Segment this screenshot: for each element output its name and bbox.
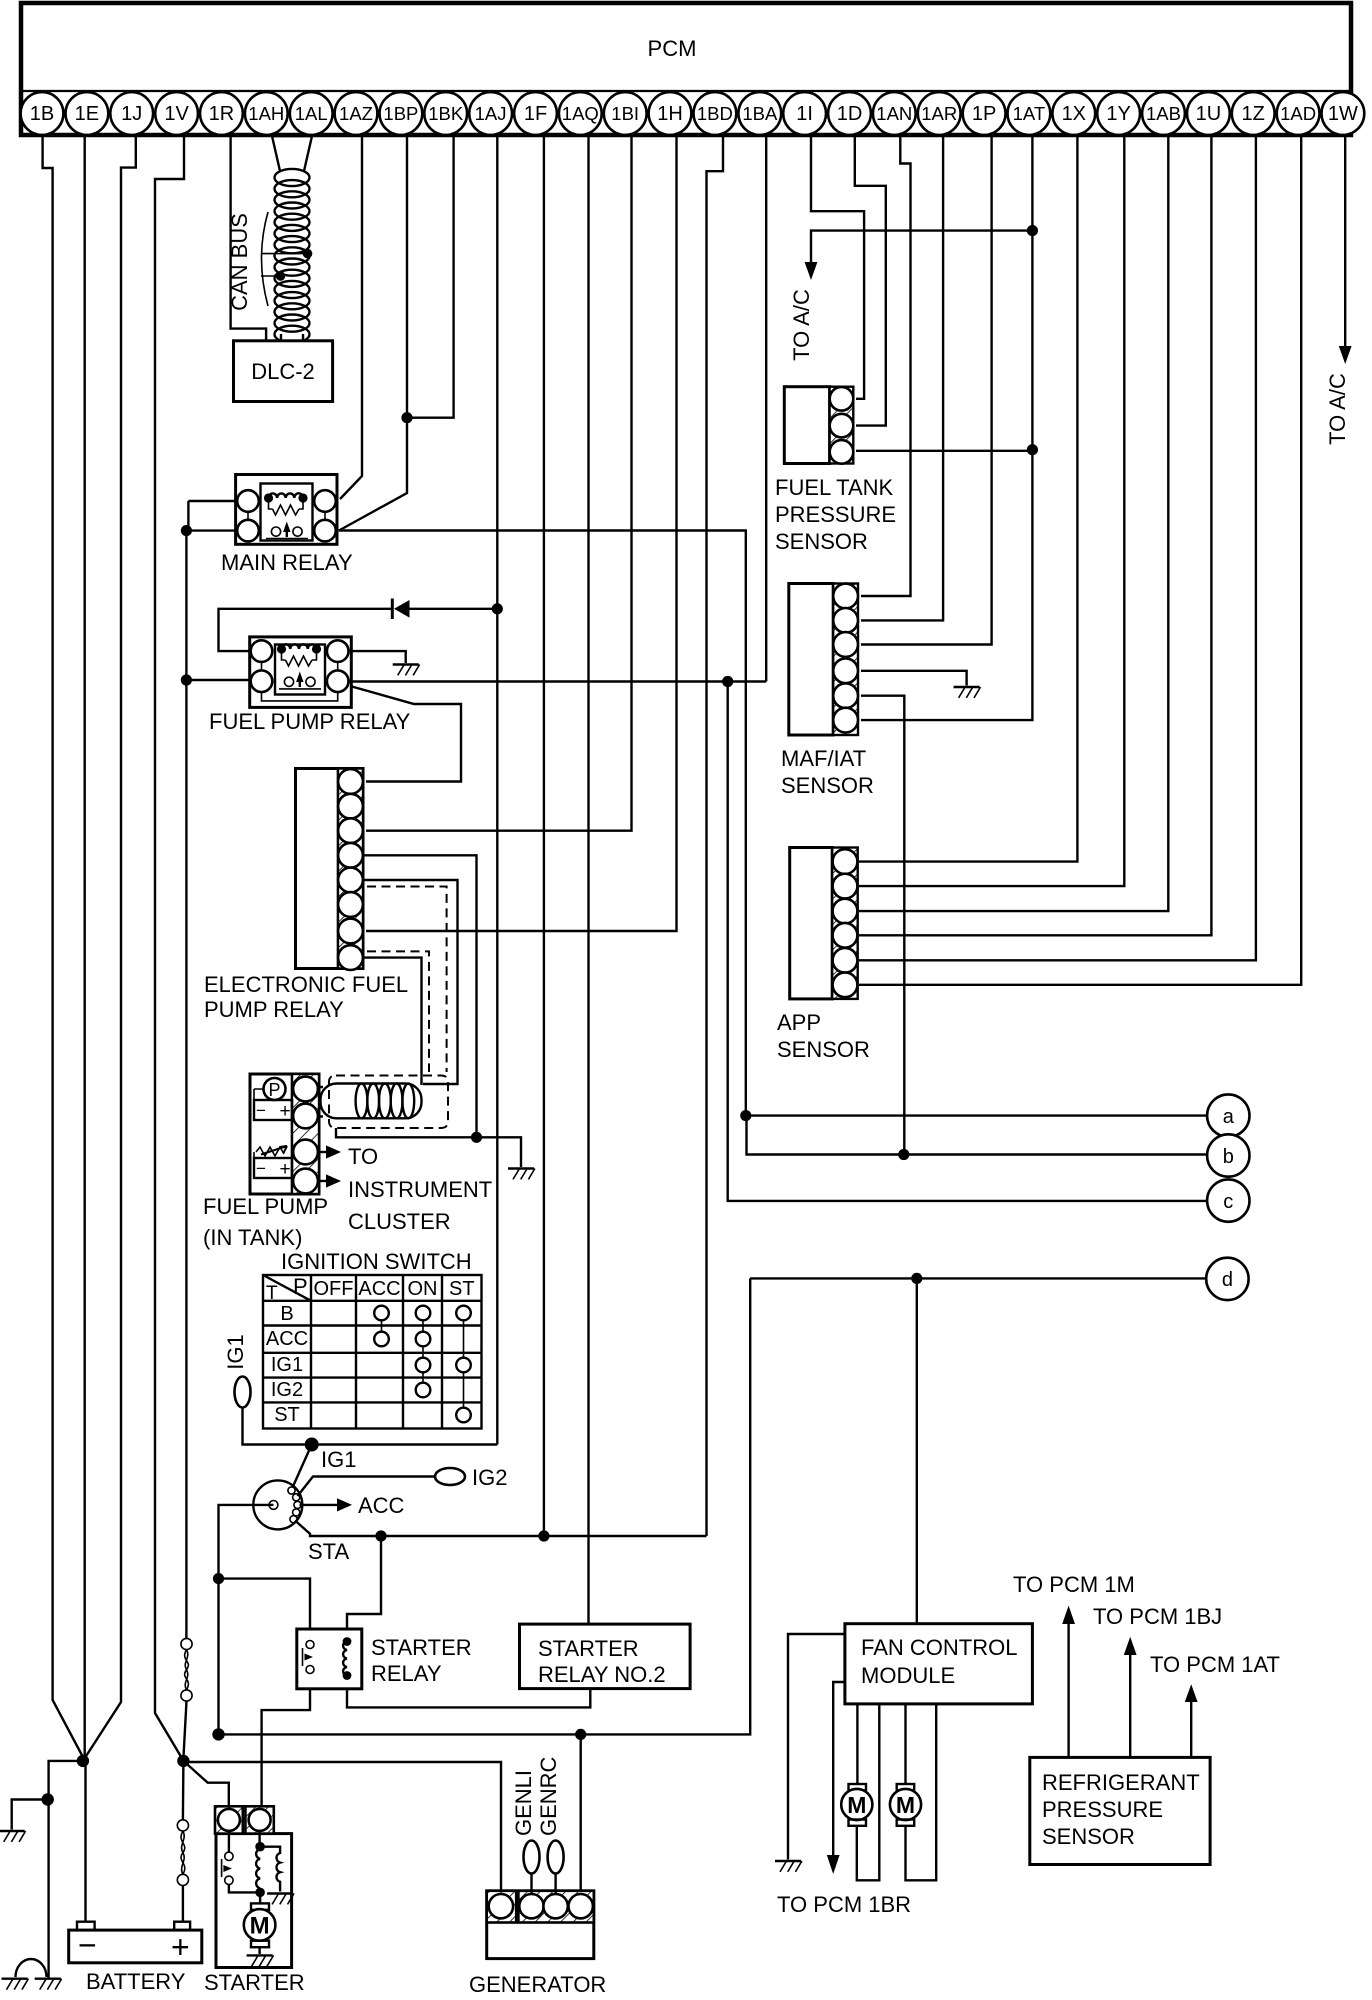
wire motor to ground xyxy=(258,1947,260,1954)
junction CAN wire tap upper xyxy=(303,249,313,259)
wire 1BK down xyxy=(407,136,454,418)
EFP relay pin 8 xyxy=(338,945,363,970)
wire RPS to PCM 1AT xyxy=(1190,1702,1192,1757)
wire starter relay coil to relay no2 xyxy=(347,1689,590,1708)
starter relay switch xyxy=(303,1641,315,1674)
APP sensor pin 4 xyxy=(833,923,858,948)
svg-text:FUEL TANK: FUEL TANK xyxy=(775,475,894,500)
fuel pump relay FUEL PUMP RELAY xyxy=(250,637,352,708)
wire 1AZ to main relay xyxy=(340,136,362,500)
wire FCM ground lead xyxy=(788,1634,845,1860)
svg-text:DLC-2: DLC-2 xyxy=(251,359,315,384)
svg-text:−: − xyxy=(256,1159,266,1178)
battery box xyxy=(69,1922,202,1965)
wire starter signal line xyxy=(219,1278,751,1734)
APP sensor pin 2 xyxy=(833,874,858,899)
PCM module box xyxy=(21,3,1351,135)
fan motor 2 xyxy=(890,1784,921,1826)
EFP relay pin 7 xyxy=(338,919,363,944)
ground left upper xyxy=(0,1831,26,1842)
junction solenoid bottom xyxy=(255,1888,265,1898)
svg-text:1BD: 1BD xyxy=(697,103,733,124)
starter terminal B xyxy=(215,1806,243,1833)
junction solenoid top xyxy=(255,1842,265,1852)
PCM pin 1BP xyxy=(380,92,423,135)
wire fan control module feed xyxy=(916,1278,918,1623)
svg-text:1BI: 1BI xyxy=(611,103,639,124)
fuel pump choke coil leads xyxy=(319,1087,323,1117)
PCM pin 1AH xyxy=(245,92,288,135)
MAF/IAT sensor pin 6 xyxy=(833,708,858,733)
fuel pump pin 1 xyxy=(293,1077,318,1102)
wire 1U to APP sensor xyxy=(859,136,1211,936)
APP sensor pin 6 xyxy=(833,972,858,997)
svg-text:ACC: ACC xyxy=(358,1493,405,1518)
wire battery feed to generator xyxy=(183,1761,501,1891)
svg-text:1BK: 1BK xyxy=(428,103,464,124)
junction bus-x186 / main relay lower pin xyxy=(181,525,192,536)
fuel pump P motor symbol xyxy=(254,1078,292,1122)
wire 1E to battery ground node xyxy=(83,136,85,1759)
ACC arrow xyxy=(337,1498,352,1511)
svg-text:1Z: 1Z xyxy=(1242,103,1265,125)
wire 1B to battery ground node xyxy=(43,136,83,1758)
starter motor xyxy=(244,1892,276,1954)
wire fuel pump relay output line xyxy=(186,679,249,681)
PCM pin 1J xyxy=(110,92,153,135)
table contact links xyxy=(382,1320,464,1407)
PCM pin 1F xyxy=(514,92,557,135)
PCM pin 1AB xyxy=(1142,92,1185,135)
diode D1 xyxy=(392,599,409,620)
fan motor 1 xyxy=(841,1784,872,1826)
svg-text:c: c xyxy=(1223,1191,1233,1213)
svg-text:TO PCM 1BJ: TO PCM 1BJ xyxy=(1093,1604,1222,1629)
fuel tank pressure sensor pin 1 xyxy=(830,387,854,411)
fuel pump pin 3 xyxy=(293,1140,318,1165)
wire 1AT to MAF pin6 xyxy=(861,450,1032,720)
starter relay coil xyxy=(343,1637,352,1680)
junction CAN wire tap lower xyxy=(276,271,286,281)
wire main relay feed bus x186 xyxy=(187,501,189,531)
APP sensor pin 5 xyxy=(833,948,858,973)
fuse main fuse upper xyxy=(181,1638,192,1701)
wire 1AT to fuel tank sensor junction xyxy=(1031,231,1033,450)
ground fuel pump relay xyxy=(393,665,420,676)
junction b line / MAF shield xyxy=(898,1149,909,1160)
starter switch xyxy=(222,1831,233,1885)
wire 1P to MAF sensor xyxy=(861,136,992,645)
wire IG1 contact line xyxy=(293,1445,312,1488)
ignition switch table xyxy=(263,1275,482,1429)
EFP relay pin 4 xyxy=(338,843,363,868)
svg-text:IG1: IG1 xyxy=(271,1354,303,1376)
starter solenoid coils xyxy=(255,1831,280,1897)
wire ACC contact line xyxy=(300,1504,338,1506)
wire fuel pump relay coil feed via diode xyxy=(219,609,392,651)
svg-text:ST: ST xyxy=(449,1278,475,1300)
wire fuel tank sensor pin3 line xyxy=(856,450,1032,452)
svg-text:ACC: ACC xyxy=(358,1278,400,1300)
svg-text:IG1: IG1 xyxy=(223,1334,248,1369)
svg-text:−: − xyxy=(256,1101,266,1120)
wire shield drain wire xyxy=(336,1128,521,1167)
junction rotor feed node dot xyxy=(212,1728,224,1740)
PCM pin 1AQ xyxy=(559,92,602,135)
MAF/IAT sensor pin 4 xyxy=(833,658,858,683)
fuel pump pin 4 xyxy=(293,1169,318,1194)
svg-text:FUEL PUMP RELAY: FUEL PUMP RELAY xyxy=(209,709,411,734)
arrow to instrument cluster 1 xyxy=(319,1151,326,1153)
svg-text:TO: TO xyxy=(348,1144,378,1169)
svg-text:1BP: 1BP xyxy=(383,103,418,124)
junction IG1 node xyxy=(305,1438,319,1452)
svg-text:MODULE: MODULE xyxy=(861,1663,955,1688)
PCM pin 1H xyxy=(649,92,692,135)
junction shield drain / EFP pin4 junction xyxy=(471,1132,482,1143)
wire power bus x186 xyxy=(185,531,187,680)
wire FCM to PCM 1BR lead xyxy=(833,1682,845,1855)
wire 1R to DLC-2 xyxy=(231,136,267,341)
junction diode / 1AJ junction xyxy=(492,603,503,614)
body ground arc xyxy=(16,1959,47,1977)
EFP relay contact column xyxy=(338,769,363,969)
svg-text:ELECTRONIC FUEL: ELECTRONIC FUEL xyxy=(204,972,408,997)
junction a line / main relay feed xyxy=(740,1110,751,1121)
MAF/IAT sensor pin 5 xyxy=(833,683,858,708)
svg-text:1AD: 1AD xyxy=(1280,103,1316,124)
svg-text:TO PCM 1BR: TO PCM 1BR xyxy=(777,1892,911,1917)
wire 1X to APP sensor xyxy=(859,136,1077,862)
wire EFP pin8 lead xyxy=(363,958,422,1085)
junction d line / fan control module xyxy=(911,1273,922,1284)
MAF/IAT sensor pin 3 xyxy=(833,632,858,657)
ground MAF sensor xyxy=(954,687,981,698)
fuel pump pin 2 xyxy=(293,1104,318,1129)
wire b line xyxy=(747,1116,1208,1155)
fuel tank pressure sensor box xyxy=(784,387,853,464)
CAN BUS brace xyxy=(262,212,269,306)
svg-text:IG2: IG2 xyxy=(271,1379,303,1401)
svg-text:IG1: IG1 xyxy=(321,1447,356,1472)
svg-text:M: M xyxy=(896,1792,915,1818)
junction 1BP/1BK join xyxy=(401,412,412,423)
wire generator L terminal xyxy=(580,1734,582,1894)
svg-text:−: − xyxy=(78,1927,97,1963)
fuel tank pressure sensor pin 3 xyxy=(830,440,854,464)
svg-text:M: M xyxy=(847,1792,866,1818)
svg-text:1AR: 1AR xyxy=(921,103,957,124)
wire solenoid to motor xyxy=(259,1892,261,1903)
wire 1W to AC xyxy=(1344,136,1346,347)
wire EFP pin5 lead xyxy=(363,880,458,1084)
wire RPS to PCM 1BJ xyxy=(1129,1655,1131,1757)
starter outer box xyxy=(216,1834,292,1968)
wire node to battery negative xyxy=(83,1761,86,1922)
shield dashed EFP pin8 xyxy=(367,951,429,1072)
PCM pin 1R xyxy=(200,92,243,135)
svg-text:SENSOR: SENSOR xyxy=(777,1037,870,1062)
svg-text:CLUSTER: CLUSTER xyxy=(348,1209,451,1234)
fuel tank pressure sensor pin 2 xyxy=(830,414,854,438)
svg-text:+: + xyxy=(279,1101,290,1122)
svg-text:1AN: 1AN xyxy=(876,103,912,124)
junction battery positive node xyxy=(177,1755,189,1767)
svg-text:TO A/C: TO A/C xyxy=(1325,373,1350,445)
wire positive node to starter B terminal xyxy=(183,1761,228,1806)
svg-text:TO PCM 1AT: TO PCM 1AT xyxy=(1150,1652,1280,1677)
PCM pin 1U xyxy=(1187,92,1230,135)
wire 1D to fuel tank sensor xyxy=(855,136,886,426)
wire 1AJ down to IG1 line xyxy=(496,136,498,1445)
svg-text:CAN BUS: CAN BUS xyxy=(227,213,252,311)
generator box xyxy=(487,1891,594,1959)
wire main relay lower-right pin long feed xyxy=(339,531,746,1116)
svg-text:+: + xyxy=(279,1159,290,1180)
svg-text:ST: ST xyxy=(274,1404,300,1426)
svg-text:1AQ: 1AQ xyxy=(562,103,599,124)
wire branch to ground1 xyxy=(12,1800,49,1830)
generator pin 2 xyxy=(519,1894,543,1918)
wire positive node to fuse2 xyxy=(182,1761,185,1820)
svg-text:OFF: OFF xyxy=(314,1278,354,1300)
wire IG2 contact line xyxy=(298,1477,436,1497)
wire fan motor2 feed xyxy=(904,1704,906,1784)
svg-text:1AH: 1AH xyxy=(248,103,284,124)
svg-text:FAN CONTROL: FAN CONTROL xyxy=(861,1635,1017,1660)
wire 1V to battery positive node xyxy=(155,136,184,1758)
svg-text:(IN TANK): (IN TANK) xyxy=(203,1225,302,1250)
wire fan motor1 feed xyxy=(856,1704,858,1784)
svg-text:FUEL PUMP: FUEL PUMP xyxy=(203,1194,328,1219)
PCM pin 1V xyxy=(155,92,198,135)
connector d xyxy=(1206,1258,1248,1300)
main relay MAIN RELAY xyxy=(236,475,337,545)
wire 1AR to MAF sensor xyxy=(861,136,943,621)
wire MAF pin5 shield lead xyxy=(861,696,904,1155)
PCM pin 1B xyxy=(21,92,64,135)
junction generator branch xyxy=(575,1729,586,1740)
arrow TO PCM 1M xyxy=(1062,1606,1075,1624)
ground starter motor xyxy=(247,1955,274,1966)
refrigerant pressure sensor box xyxy=(1030,1757,1210,1864)
junction STA / 1F junction xyxy=(538,1530,549,1541)
svg-text:BATTERY: BATTERY xyxy=(86,1969,186,1994)
svg-text:P: P xyxy=(293,1274,308,1299)
svg-text:1BA: 1BA xyxy=(742,103,778,124)
svg-text:GENERATOR: GENERATOR xyxy=(469,1972,606,1997)
wire EFP pin4 ground lead xyxy=(363,855,477,1137)
svg-text:RELAY NO.2: RELAY NO.2 xyxy=(538,1662,666,1687)
EFP relay pin 6 xyxy=(338,892,363,917)
wire node to left ground branch xyxy=(49,1761,83,1978)
shield dashed EFP pin5 xyxy=(367,887,447,1073)
wire c line xyxy=(728,682,1207,1201)
PCM pin 1P xyxy=(963,92,1006,135)
wire 1AB to APP sensor xyxy=(859,136,1168,912)
wire fuel pump relay output long line xyxy=(349,680,766,682)
generator pin 4 xyxy=(569,1894,593,1918)
ground fuel pump shield xyxy=(508,1169,535,1180)
APP sensor box xyxy=(790,848,858,999)
DLC-2 connector box xyxy=(234,341,333,402)
APP sensor pin 1 xyxy=(833,849,858,874)
EFP relay pin 5 xyxy=(338,868,363,893)
connector b xyxy=(1207,1134,1249,1176)
CAN BUS callout wires xyxy=(261,254,306,276)
svg-text:1X: 1X xyxy=(1062,103,1086,125)
svg-text:MAF/IAT: MAF/IAT xyxy=(781,746,866,771)
wire AC branch xyxy=(811,231,1032,262)
PCM pin 1D xyxy=(828,92,871,135)
svg-text:1P: 1P xyxy=(972,103,996,125)
svg-text:a: a xyxy=(1223,1106,1235,1128)
svg-text:1Y: 1Y xyxy=(1106,103,1130,125)
starter relay no2 box xyxy=(520,1624,691,1689)
svg-text:1H: 1H xyxy=(657,103,683,125)
svg-text:1V: 1V xyxy=(164,103,189,125)
svg-text:1B: 1B xyxy=(30,103,54,125)
wire IG1 bullet to IG1 node line xyxy=(243,1408,498,1445)
IG2 bullet terminal xyxy=(435,1468,465,1485)
EFP relay pin 2 xyxy=(338,794,363,819)
wire a line xyxy=(746,1114,1207,1116)
fan control module box xyxy=(845,1624,1033,1704)
PCM pin 1AD xyxy=(1277,92,1320,135)
wire starter S to coil xyxy=(258,1831,260,1847)
wire 1BP-1BK to main relay xyxy=(339,418,407,531)
svg-text:1E: 1E xyxy=(75,103,99,125)
PCM pin 1BI xyxy=(604,92,647,135)
svg-text:1W: 1W xyxy=(1328,103,1358,125)
svg-text:1U: 1U xyxy=(1196,103,1222,125)
svg-text:B: B xyxy=(280,1303,293,1325)
generator pin 1 xyxy=(489,1894,513,1918)
junction bus-x186 / fuel pump relay pin line xyxy=(181,674,192,685)
svg-text:SENSOR: SENSOR xyxy=(781,773,874,798)
svg-text:GENLI: GENLI xyxy=(511,1770,536,1836)
wire 1I to fuel tank sensor xyxy=(811,136,864,399)
wire starter relay coil feed xyxy=(347,1536,381,1639)
svg-text:SENSOR: SENSOR xyxy=(775,529,868,554)
CAN bus twisted pair xyxy=(275,169,310,343)
PCM pin 1W xyxy=(1322,92,1365,135)
junction output line / c-wire junction xyxy=(722,676,733,687)
wire 1Y to APP sensor xyxy=(859,136,1124,887)
fuel pump assembly box xyxy=(250,1074,319,1194)
wire 1AN to MAF sensor xyxy=(861,136,911,597)
arrow TO A/C right xyxy=(1339,346,1352,364)
wire 1H down to EFP relay xyxy=(366,136,677,932)
svg-text:+: + xyxy=(171,1929,190,1965)
wire 1BA down to relay output line xyxy=(765,136,767,682)
PCM pin 1AT xyxy=(1008,92,1051,135)
wire 1Z to APP sensor xyxy=(859,136,1256,961)
svg-text:1J: 1J xyxy=(121,103,142,125)
wire 1BP down xyxy=(406,136,408,418)
PCM pin 1I xyxy=(783,92,826,135)
ground left lower body xyxy=(35,1979,62,1990)
PCM pin 1X xyxy=(1052,92,1095,135)
svg-text:PRESSURE: PRESSURE xyxy=(1042,1797,1163,1822)
wire fan motor1 return xyxy=(857,1704,880,1880)
svg-text:GENRC: GENRC xyxy=(536,1756,561,1836)
PCM pin 1AJ xyxy=(469,92,512,135)
PCM pin 1AN xyxy=(873,92,916,135)
arrow TO A/C left xyxy=(805,262,818,280)
PCM pin 1BD xyxy=(694,92,737,135)
MAF/IAT sensor pin 2 xyxy=(833,608,858,633)
wire STA contact line xyxy=(295,1521,707,1537)
PCM pin 1AL xyxy=(290,92,333,135)
wire main relay lower-left pin to bus xyxy=(186,529,237,531)
GENLI bullet xyxy=(524,1841,540,1874)
PCM pin 1BA xyxy=(738,92,781,135)
wire MAF pin4 ground lead xyxy=(861,671,967,686)
wire starter B to switch xyxy=(228,1831,230,1852)
APP sensor pin 3 xyxy=(833,899,858,924)
wire 1AQ down to starter relay no2 xyxy=(587,136,589,1625)
svg-text:SENSOR: SENSOR xyxy=(1042,1824,1135,1849)
svg-text:TO A/C: TO A/C xyxy=(789,289,814,361)
wire 1J to battery ground node xyxy=(85,136,136,1759)
svg-text:PCM: PCM xyxy=(648,36,697,61)
wire d line xyxy=(750,1277,1206,1279)
svg-text:PUMP RELAY: PUMP RELAY xyxy=(204,997,344,1022)
PCM pin 1AR xyxy=(918,92,961,135)
svg-text:1AZ: 1AZ xyxy=(339,103,373,124)
svg-text:RELAY: RELAY xyxy=(371,1661,442,1686)
wire starter switch to junction xyxy=(229,1885,260,1893)
wire GENRC lead xyxy=(554,1874,556,1895)
arrow TO PCM 1BR xyxy=(827,1855,840,1874)
fuse battery fuse lower xyxy=(177,1820,188,1886)
junction left ground branch xyxy=(42,1793,54,1805)
PCM pin 1E xyxy=(66,92,109,135)
wire fuse2 to battery positive xyxy=(182,1886,184,1922)
arrow TO PCM 1BJ xyxy=(1124,1637,1137,1655)
svg-text:1I: 1I xyxy=(796,103,813,125)
svg-text:1F: 1F xyxy=(524,103,547,125)
svg-text:STARTER: STARTER xyxy=(204,1970,305,1995)
svg-text:INSTRUMENT: INSTRUMENT xyxy=(348,1177,492,1202)
svg-text:IGNITION SWITCH: IGNITION SWITCH xyxy=(281,1249,472,1274)
wire starter relay switch to starter xyxy=(262,1689,310,1807)
wire diode to 1AJ line xyxy=(410,608,498,610)
EFP relay pin 3 xyxy=(338,818,363,843)
starter terminal S xyxy=(245,1806,273,1833)
svg-text:ACC: ACC xyxy=(266,1328,308,1350)
wire fuel pump relay to EFP relay xyxy=(350,686,461,782)
arrow TO PCM 1AT xyxy=(1185,1684,1198,1702)
junction 1AT / fuel tank sensor pin3 xyxy=(1027,444,1038,455)
svg-text:MAIN RELAY: MAIN RELAY xyxy=(221,550,353,575)
table contact circles xyxy=(374,1306,471,1423)
wire RPS to PCM 1M xyxy=(1067,1624,1069,1757)
svg-text:T: T xyxy=(266,1283,278,1304)
connector c xyxy=(1207,1179,1249,1221)
wire GENLI lead xyxy=(530,1874,532,1895)
wire power bus x186 lower xyxy=(185,680,187,1638)
svg-text:STARTER: STARTER xyxy=(538,1636,639,1661)
svg-text:1AB: 1AB xyxy=(1146,103,1181,124)
svg-text:REFRIGERANT: REFRIGERANT xyxy=(1042,1770,1200,1795)
GENRC bullet xyxy=(548,1841,564,1874)
wire fuel pump relay ground wire xyxy=(349,651,406,663)
svg-text:ON: ON xyxy=(408,1278,438,1300)
IG1 bullet terminal xyxy=(235,1377,251,1408)
wire main relay upper-left pin to bus xyxy=(188,500,237,502)
